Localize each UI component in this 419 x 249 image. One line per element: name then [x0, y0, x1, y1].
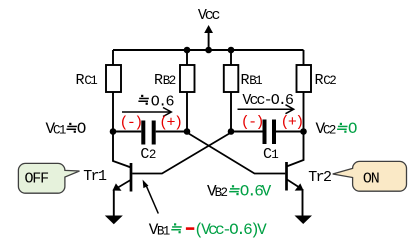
svg-text:R: R	[240, 72, 249, 89]
svg-text:Vcc: Vcc	[198, 7, 220, 24]
svg-text:B1: B1	[157, 224, 170, 238]
svg-text:O.6: O.6	[151, 93, 175, 110]
svg-text:R: R	[76, 72, 85, 89]
svg-text:(+): (+)	[159, 115, 181, 132]
svg-text:(Vcc-O.6)V: (Vcc-O.6)V	[194, 221, 267, 239]
svg-text:B2: B2	[215, 186, 228, 200]
svg-text:B2: B2	[163, 74, 176, 88]
svg-text:C2: C2	[323, 123, 336, 137]
svg-text:1: 1	[271, 148, 278, 162]
svg-text:O: O	[348, 120, 357, 138]
svg-text:OFF: OFF	[25, 170, 49, 187]
svg-text:C1: C1	[84, 74, 97, 88]
svg-text:O: O	[77, 120, 86, 138]
svg-text:Vcc-O.6: Vcc-O.6	[242, 92, 294, 109]
svg-text:O.6V: O.6V	[240, 183, 272, 201]
svg-text:ON: ON	[363, 171, 379, 188]
svg-text:(-): (-)	[241, 114, 263, 131]
svg-text:(+): (+)	[280, 114, 302, 131]
svg-text:C1: C1	[53, 123, 66, 137]
svg-text:2: 2	[149, 148, 156, 162]
svg-text:(-): (-)	[119, 115, 141, 132]
svg-text:Tr2: Tr2	[308, 169, 331, 186]
svg-text:C2: C2	[323, 74, 336, 88]
svg-text:R: R	[154, 72, 163, 89]
svg-text:Tr1: Tr1	[83, 168, 107, 185]
svg-text:B1: B1	[249, 74, 262, 88]
svg-text:R: R	[315, 72, 324, 89]
